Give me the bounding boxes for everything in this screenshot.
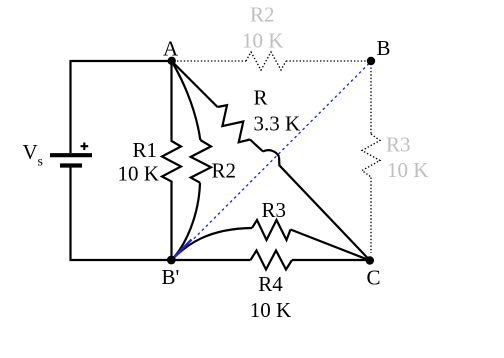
svg-text:10 K: 10 K (118, 162, 159, 186)
resistor R4 zigzag (251, 251, 293, 270)
svg-text:R2: R2 (212, 159, 237, 183)
fold line B to B' blue dashed (193, 64, 369, 240)
resistor R2 bottom curved lead to B' (172, 183, 201, 260)
crossover hump over fold line (263, 150, 279, 156)
resistor R 3.3K lead to crossover (250, 140, 263, 152)
resistor R 3.3K diagonal lead from A (172, 61, 218, 107)
node B (367, 57, 375, 65)
battery plus sign (81, 143, 89, 151)
resistor R 3.3K zigzag (218, 105, 251, 142)
resistor R3 right lead to node C (291, 230, 371, 261)
wire left rail lower (battery - down to bottom rail) (69, 168, 71, 262)
ghost resistor R2 dotted wire zigzag to B (286, 60, 372, 62)
resistor R2 zigzag (191, 140, 211, 183)
svg-text:3.3 K: 3.3 K (254, 111, 301, 135)
node A (168, 57, 176, 65)
battery Vs top plate (+) (50, 153, 92, 157)
ghost resistor R2 dotted zigzag (246, 52, 286, 70)
svg-text:10 K: 10 K (242, 29, 283, 53)
svg-text:R1: R1 (133, 138, 158, 162)
resistor R2 top curved lead from A (172, 61, 201, 140)
svg-text:B': B' (162, 265, 180, 289)
svg-text:R4: R4 (258, 272, 283, 296)
svg-text:R: R (254, 86, 268, 110)
resistor R3 left curved lead from B' (172, 228, 253, 260)
resistor R1 (vertical A to B') (162, 61, 181, 260)
ghost resistor R2 dotted wire A to zigzag (177, 60, 246, 62)
ghost resistor R3 dotted zigzag (362, 134, 380, 177)
wire from R4 to node C (292, 259, 370, 261)
wire bottom from B' to resistor R4 (172, 259, 251, 261)
node B' (167, 256, 176, 265)
wire left rail upper (node A loop down to battery +) (69, 60, 71, 153)
node C (366, 256, 374, 264)
ghost resistor R3 dotted wire zigzag to C (370, 178, 372, 254)
svg-text:V: V (23, 140, 38, 164)
wire bottom rail from battery to node B' (70, 259, 172, 261)
svg-text:B: B (377, 36, 391, 60)
svg-text:R3: R3 (386, 133, 411, 157)
svg-text:R3: R3 (262, 198, 287, 222)
svg-text:A: A (163, 36, 179, 60)
svg-text:s: s (38, 155, 43, 170)
svg-text:R2: R2 (250, 3, 275, 27)
svg-text:10 K: 10 K (250, 298, 291, 322)
resistor R 3.3K lead from crossover to node C (279, 157, 370, 261)
ghost resistor R3 dotted wire B down to zigzag (370, 68, 372, 135)
battery Vs bottom plate (-) (60, 163, 82, 167)
resistor R3 zigzag (252, 220, 291, 240)
fold line solid blue segment at B' (172, 240, 192, 261)
wire top rail from battery to node A (71, 60, 172, 62)
svg-text:C: C (367, 266, 381, 290)
svg-text:10 K: 10 K (387, 158, 428, 182)
